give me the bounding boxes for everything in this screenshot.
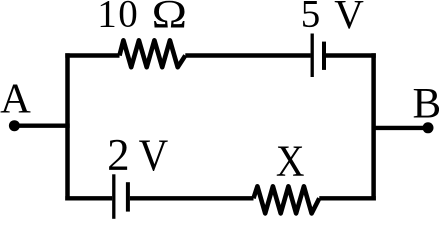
wire bbox=[326, 53, 376, 58]
node A bbox=[9, 120, 20, 131]
wire bbox=[65, 196, 112, 200]
wire bbox=[319, 196, 376, 200]
svg-text:Ω: Ω bbox=[152, 0, 187, 36]
wire bbox=[374, 126, 428, 130]
wire bbox=[185, 53, 310, 58]
wire bbox=[14, 123, 69, 127]
wire bbox=[65, 53, 119, 58]
node B bbox=[423, 122, 434, 133]
svg-text:10: 10 bbox=[97, 0, 139, 36]
battery B2 short plate bbox=[126, 182, 130, 211]
svg-text:5: 5 bbox=[301, 0, 321, 36]
svg-text:V: V bbox=[139, 131, 169, 181]
wire bbox=[65, 53, 70, 200]
svg-text:A: A bbox=[0, 75, 31, 122]
wire bbox=[371, 53, 376, 200]
battery B1 long plate bbox=[311, 34, 314, 78]
resistor X bbox=[254, 186, 320, 213]
svg-text:B: B bbox=[413, 80, 439, 127]
svg-text:X: X bbox=[276, 135, 305, 185]
battery B2 long plate bbox=[112, 174, 115, 219]
wire bbox=[130, 196, 254, 200]
svg-text:V: V bbox=[334, 0, 364, 37]
battery B1 short plate bbox=[322, 42, 326, 70]
resistor R1 bbox=[120, 40, 186, 67]
svg-text:2: 2 bbox=[107, 130, 130, 180]
